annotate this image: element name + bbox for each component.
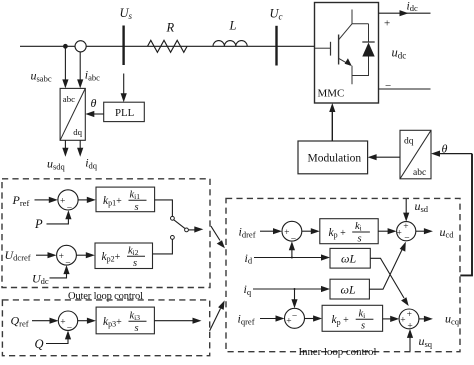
outer loop dashed box (2, 179, 210, 288)
svg-text:+: + (59, 252, 64, 262)
svg-text:s: s (135, 202, 139, 213)
svg-text:θ: θ (91, 96, 97, 110)
wire ucd output arrow (416, 230, 426, 232)
wire Udcref to summer (36, 254, 49, 256)
svg-text:+: + (60, 317, 65, 327)
svg-text:+: + (397, 229, 402, 239)
wL box 1 (330, 248, 370, 268)
wire Udc feedback (50, 269, 67, 278)
abc/dq transform box (60, 88, 85, 140)
svg-text:−: − (385, 80, 391, 92)
Q loop dashed box (2, 300, 209, 356)
inductor L (213, 41, 247, 47)
wire P feedback (47, 215, 69, 224)
wire Pref to summer (35, 199, 51, 201)
svg-text:ki: ki (355, 221, 362, 232)
wire diode top branch (368, 24, 370, 42)
svg-text:+: + (60, 197, 65, 207)
svg-text:dq: dq (404, 137, 414, 147)
wire PI1 to switch (155, 200, 173, 217)
svg-text:+: + (403, 222, 408, 232)
svg-text:s: s (361, 321, 365, 332)
wire dq/abc to Modulation arrow (373, 156, 401, 158)
summer S5 (397, 222, 416, 241)
PI box kp q-axis (322, 305, 383, 331)
svg-text:L: L (229, 19, 237, 33)
wire idc output line (379, 12, 431, 14)
wire usdq down arrow (64, 140, 66, 149)
wire summer S3 to PI3 (78, 320, 89, 322)
PLL box (104, 102, 145, 121)
svg-text:s: s (358, 234, 362, 245)
switch pole (185, 228, 189, 232)
svg-text:−: − (292, 311, 297, 321)
wire summer S6 to PI5 (305, 318, 315, 320)
transistor IGBT gate bar (330, 42, 332, 56)
current transducer circle (75, 41, 86, 52)
svg-text:s: s (135, 323, 139, 334)
svg-text:+: + (400, 316, 405, 326)
svg-text:−: − (67, 204, 72, 214)
svg-text:−: − (404, 233, 409, 243)
transistor IGBT body bar (338, 35, 340, 65)
wire PI3 output arrow (154, 320, 194, 322)
wire diagonal into inner box upper (211, 226, 220, 240)
PI box kp3 (96, 307, 154, 334)
wire theta vertical (460, 154, 472, 276)
svg-text:Q: Q (35, 337, 44, 351)
Us measurement bar (122, 26, 124, 66)
svg-text:P: P (34, 217, 43, 231)
svg-text:Inner loop control: Inner loop control (299, 346, 377, 358)
transistor IGBT collector (339, 24, 352, 40)
wire iqref to summer (260, 318, 278, 320)
Uc measurement bar (275, 26, 277, 66)
node iq junction (294, 288, 296, 290)
wire id line to wL1 (254, 257, 323, 259)
svg-text:ωL: ωL (341, 282, 356, 296)
svg-text:ki2: ki2 (128, 246, 139, 257)
wire dc negative line (379, 88, 431, 90)
wire ucq output arrow (419, 318, 426, 320)
wire idref to summer (260, 230, 275, 232)
wire PLL to abc/dq arrow (90, 113, 104, 115)
wire usd down arrow (405, 199, 407, 214)
svg-text:+: + (407, 310, 412, 320)
wire iabc down arrow (79, 52, 81, 81)
wire wL2 cross to summer S5 (369, 246, 403, 289)
svg-text:abc: abc (63, 94, 75, 104)
summer S3 (58, 311, 77, 330)
resistor R (148, 40, 188, 52)
wire Q feedback (46, 335, 68, 344)
wire Qref to summer (32, 320, 52, 322)
svg-text:+: + (384, 18, 390, 30)
summer S7 (399, 309, 419, 329)
summer S6 (285, 308, 305, 328)
wire summer S2 to PI2 (76, 254, 87, 256)
wire idq down arrow (79, 140, 81, 149)
wire diagonal into inner box lower (210, 309, 221, 331)
MMC box U1 (315, 3, 379, 104)
wire id to summer S4 (291, 246, 293, 258)
wire Modulation to MMC arrow (331, 108, 333, 142)
svg-text:abc: abc (413, 168, 426, 178)
PI box kp2 (95, 243, 153, 269)
diode D1 cathode bar (362, 41, 374, 43)
svg-text:MMC: MMC (318, 87, 345, 99)
summer S2 (57, 245, 77, 265)
dq/abc transform box (400, 130, 431, 179)
svg-text:dq: dq (73, 127, 82, 137)
diode D1 triangle (362, 43, 374, 57)
svg-text:kp +: kp + (329, 227, 347, 240)
wire usq up arrow (409, 337, 411, 352)
wire wL1 cross to summer S7 (370, 258, 404, 298)
svg-text:+: + (284, 228, 289, 238)
switch contact lower (171, 236, 175, 240)
svg-text:ωL: ωL (341, 252, 356, 266)
svg-text:ki3: ki3 (130, 311, 141, 322)
wire iq line to wL2 (253, 288, 323, 290)
wire emitter stub (351, 66, 353, 85)
svg-text:ki1: ki1 (130, 190, 141, 201)
node id junction (291, 257, 293, 259)
Modulation box (298, 141, 368, 174)
inner loop dashed box (226, 198, 460, 351)
wL box 2 (330, 279, 369, 299)
summer S1 (58, 190, 78, 210)
PI box kp1 (96, 187, 155, 212)
wire PI2 to switch lower (153, 239, 173, 254)
svg-text:Modulation: Modulation (308, 152, 362, 164)
svg-text:PLL: PLL (115, 107, 134, 119)
svg-text:ki: ki (359, 308, 366, 319)
svg-text:R: R (166, 21, 175, 35)
node junction dot (63, 44, 68, 49)
wire summer S1 to PI1 (78, 199, 88, 201)
wire iq to summer S6 (294, 289, 296, 301)
wire Us to PLL arrow (123, 74, 125, 95)
switch contact upper (171, 216, 175, 220)
summer S4 (282, 221, 302, 241)
wire diode bottom branch (352, 57, 369, 76)
wire theta input to dq/abc (436, 153, 473, 155)
switch lever (174, 220, 185, 229)
svg-text:kp +: kp + (332, 314, 350, 327)
svg-text:s: s (133, 258, 137, 269)
PI box kp d-axis (320, 219, 378, 244)
wire switch output arrow (189, 229, 197, 231)
wire main AC line (20, 45, 315, 47)
wire PI5 to summer S7 (383, 318, 392, 320)
wire PI4 to summer S5 (378, 230, 389, 232)
wire summer S4 to PI4 (302, 230, 313, 232)
wire usabc down arrow (64, 46, 66, 80)
wire collector stub (352, 10, 369, 24)
transistor IGBT gate lead wire (315, 47, 331, 49)
svg-text:idc: idc (407, 1, 418, 14)
svg-text:+: + (286, 316, 291, 326)
transistor IGBT emitter with arrow (339, 58, 351, 65)
